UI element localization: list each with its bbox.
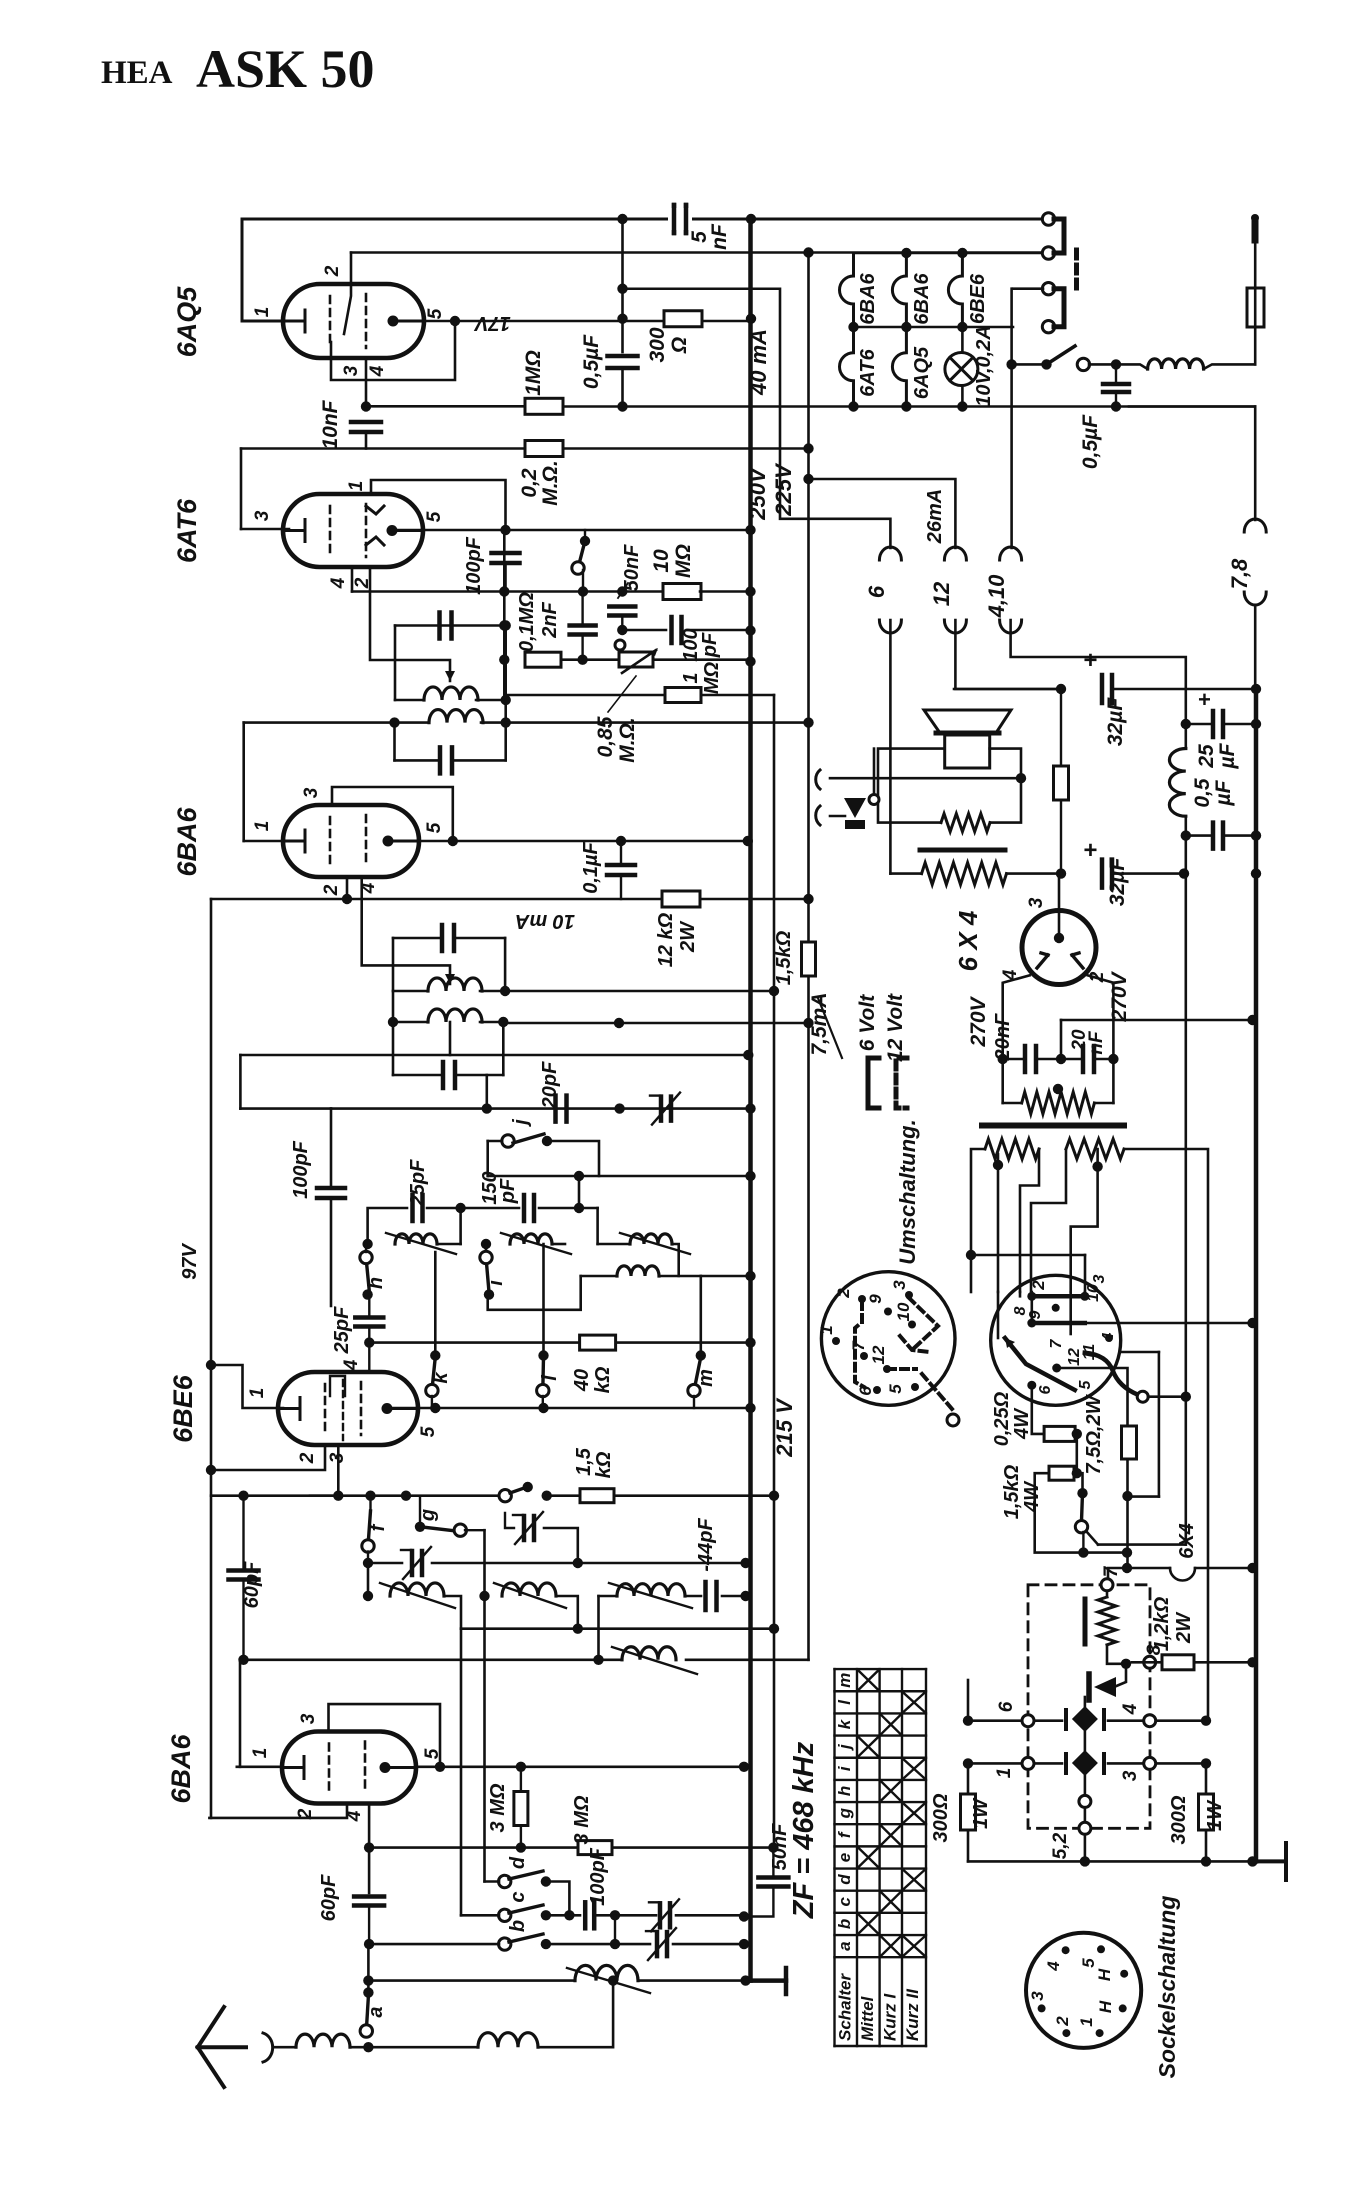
bar heater shunt (1083, 1599, 1088, 1644)
svg-text:µF: µF (1212, 779, 1235, 806)
svg-text:4W: 4W (1021, 1480, 1043, 1513)
svg-text:6BE6: 6BE6 (168, 1374, 198, 1443)
leader 7,5mA (818, 998, 842, 1058)
switch a (366, 1996, 368, 2031)
svg-text:b: b (835, 1919, 854, 1929)
wire to switch contact 2 (809, 251, 1044, 254)
coil IF2 (429, 710, 483, 723)
wire fuse to mains terminal (1254, 240, 1257, 288)
junction row2 right (1201, 1758, 1211, 1768)
heater 6BA6 b (892, 253, 906, 327)
core arrow coil2 (501, 1233, 571, 1254)
hook curve (1085, 1353, 1138, 1395)
svg-text:H: H (1095, 1968, 1114, 1981)
wire lamp bottom (961, 386, 964, 407)
svg-text:2: 2 (834, 1288, 853, 1299)
capacitor IF2 (440, 747, 452, 773)
socket pin 5 (911, 1383, 919, 1391)
wire 300R bottom (1205, 1830, 1208, 1861)
wire IF1 to IF2 (504, 700, 507, 723)
wire to 1,5k (547, 1494, 581, 1497)
socket dashes 3 (888, 1367, 916, 1371)
junction anode row bus (743, 836, 753, 846)
wire 6X4 pin3 (1058, 874, 1061, 932)
wire 6BA6 anode row (419, 840, 748, 843)
ground symbol right (1253, 1843, 1287, 1880)
wire x461 down (460, 1629, 463, 1916)
switch m (694, 1357, 701, 1391)
table X g3 (904, 1804, 924, 1822)
junction 3M1 row1848 (516, 1842, 526, 1852)
wire 44pF to bus (722, 1595, 746, 1598)
wire a up (367, 1944, 370, 1993)
svg-text:6X4: 6X4 (1176, 1523, 1198, 1559)
wire 32uF row (954, 688, 1061, 691)
junction 60pF bottom (238, 1655, 248, 1665)
none (1126, 1553, 1128, 1568)
coil osc3a (630, 1234, 672, 1244)
wire coil3b to bus (701, 1275, 751, 1278)
capacitor IF4 (443, 1062, 455, 1088)
wire pin12 to 7,5 (1057, 1368, 1128, 1426)
capacitor 50nF bottom (758, 1878, 788, 1887)
core arrow coil1 (386, 1233, 456, 1254)
lever arrow (1005, 1338, 1015, 1348)
wire trimmerB right (544, 1528, 578, 1563)
contact b (499, 1938, 511, 1950)
sockel pin 5 (1097, 1945, 1105, 1953)
svg-text:215 V: 215 V (772, 1397, 797, 1458)
svg-text:9: 9 (1027, 1310, 1044, 1319)
junction heater rail 1 (901, 248, 911, 258)
junction IF2 left (389, 717, 399, 727)
pin 3 dot 6X4 (1054, 933, 1064, 943)
svg-text:3: 3 (890, 1280, 909, 1290)
wire 2nF bottom (581, 635, 583, 660)
resistor 300Ohm 1W left (961, 1794, 976, 1830)
trimmer ant B (657, 1932, 667, 1956)
svg-text:12 kΩ: 12 kΩ (655, 912, 677, 967)
svg-text:5: 5 (1079, 1958, 1098, 1968)
svg-text:1W: 1W (970, 1797, 992, 1829)
wire IF1 right (504, 626, 507, 701)
wire 6BA6 pin3 box (332, 787, 453, 841)
wire 0,1M to pot (561, 658, 619, 661)
svg-text:0,5µF: 0,5µF (580, 334, 603, 389)
capacitor 20nF 1 (1025, 1046, 1036, 1072)
wire row 695 (504, 694, 665, 697)
wire 6BE6 anode row (393, 1407, 751, 1410)
wire 0,5uF2 bottom lead (1115, 392, 1117, 407)
junction field/32uF2 (1056, 868, 1066, 878)
junction 100pF right (610, 1910, 620, 1920)
capacitor 0,5uF 3 (1213, 823, 1223, 849)
wire to c circle (461, 1914, 499, 1917)
tube 6BE6 (278, 1372, 418, 1445)
wire 100pF down (504, 563, 507, 592)
svg-text:pF: pF (497, 1178, 519, 1204)
junction IF2/vertical 808 (803, 717, 813, 727)
capacitor 100pF osc2 (317, 1188, 345, 1198)
resistor 0,1MOhm (525, 652, 561, 667)
svg-text:0,2: 0,2 (518, 468, 541, 498)
svg-text:6BA6: 6BA6 (166, 1734, 196, 1804)
wire term6 down to field coil (889, 620, 892, 874)
wire IF3 left (392, 938, 395, 991)
svg-text:3: 3 (1091, 1274, 1108, 1283)
wire IF3 right (504, 938, 507, 991)
wire 5,2 down (1084, 1834, 1087, 1861)
capacitor 150pF (524, 1195, 534, 1221)
table X l3 (904, 1693, 924, 1711)
wire IF3 bottom left (393, 990, 428, 993)
junction row b bus (739, 1939, 749, 1949)
switch c (509, 1905, 543, 1913)
junction a/gnd row (363, 1975, 373, 1985)
junction IF3 right (500, 986, 510, 996)
wire to 6AT6 pin3 (241, 528, 289, 531)
wire rail right end (1129, 405, 1255, 408)
svg-text:10V,0,2A: 10V,0,2A (973, 325, 995, 407)
svg-text:6BE6: 6BE6 (967, 273, 989, 324)
junction hook x1185 (1181, 1392, 1191, 1402)
svg-text:0,1MΩ: 0,1MΩ (516, 592, 538, 652)
wire k bottom (431, 1396, 433, 1408)
wire 6BA6b pin1 (237, 1766, 282, 1769)
junction 20pF right (614, 1103, 624, 1113)
svg-text:32µF: 32µF (1106, 857, 1129, 906)
contact d (499, 1875, 511, 1887)
svg-text:7: 7 (849, 1340, 868, 1351)
none (997, 1291, 999, 1293)
wire h top (365, 1244, 367, 1252)
junction v/IF1 (499, 620, 509, 630)
resistor 1MOhm grid (665, 688, 701, 703)
wire trimmerB to bus (673, 1943, 744, 1946)
pickup crystal (844, 798, 866, 818)
svg-text:25pF: 25pF (331, 1306, 353, 1354)
wire coilD right lead to x808 (686, 1659, 809, 1662)
junction 1,5k right (1072, 1468, 1082, 1478)
capacitor 44pF (706, 1582, 717, 1610)
junction 20pF left (482, 1103, 492, 1113)
junction pin1/anode (500, 525, 510, 535)
wire bottom row right (1083, 1551, 1127, 1554)
wire 300R top (1205, 1763, 1208, 1794)
wire pin11 link (1086, 1531, 1098, 1545)
junction row1176 bus (745, 1171, 755, 1181)
wire choke top (1185, 724, 1188, 749)
wire left col down (367, 1563, 370, 1596)
contact pickup (869, 795, 879, 805)
terminal 4,10 (1000, 547, 1022, 560)
svg-text:17V: 17V (474, 312, 511, 334)
wire x484 long vertical (483, 1530, 486, 1881)
svg-text:270V: 270V (967, 995, 990, 1047)
none (1127, 1496, 1129, 1568)
wire antenna in (275, 2046, 296, 2049)
junction row1022 (614, 1018, 624, 1028)
socket pin 1 rect (1022, 1757, 1034, 1769)
junction coil2 left (481, 1239, 491, 1249)
svg-text:1W: 1W (1204, 1799, 1226, 1831)
svg-text:3: 3 (301, 787, 322, 798)
switch l (541, 1357, 545, 1391)
junction gnd row bus (740, 1975, 750, 1985)
none (970, 1680, 972, 1720)
speaker frame box (878, 749, 1021, 823)
wire coil3b via i (488, 1276, 581, 1310)
junction 0,25 right (1072, 1429, 1082, 1439)
wire j circle lead (488, 1140, 502, 1143)
sockel pin 3 (1038, 2004, 1046, 2012)
wire f bottom (367, 1552, 369, 1564)
wire windingA right down (1020, 1149, 1039, 1292)
coil IF3 (428, 978, 482, 991)
wire row 899 AVC (211, 898, 809, 901)
coil band B (502, 1583, 556, 1596)
leader 50nF (618, 583, 628, 598)
svg-text:M.Ω.: M.Ω. (616, 717, 639, 763)
switch 1,5k (1082, 1493, 1083, 1521)
contact g (454, 1524, 466, 1536)
junction 0,5uF3 bus (1251, 830, 1261, 840)
wire 1,5k to 215V vertical (614, 1494, 774, 1497)
wire 6AT6 anode row (392, 529, 751, 532)
wire 60pF osc bottom (242, 1580, 244, 1660)
svg-text:32µF: 32µF (1104, 697, 1127, 746)
wire coil2 to l (542, 1244, 545, 1356)
junction 0,5uF top (617, 314, 627, 324)
svg-text:7: 7 (1048, 1338, 1065, 1348)
svg-text:1,5kΩ: 1,5kΩ (1001, 1464, 1023, 1519)
junction pin3 row (333, 1491, 343, 1501)
svg-text:3: 3 (341, 365, 362, 376)
junction pin4 row1848 (364, 1842, 374, 1852)
sockel pin 1 (1096, 2029, 1104, 2037)
wire osc row left stub (240, 1107, 331, 1110)
junction windingA tap (993, 1160, 1003, 1170)
svg-text:100pF: 100pF (290, 1140, 312, 1199)
junction row660 bus (745, 656, 755, 666)
junction mains switch (1006, 359, 1016, 369)
junction osc top bus (745, 1103, 755, 1113)
svg-text:10: 10 (1085, 1284, 1102, 1302)
wire pin7 heater (1108, 1568, 1170, 1585)
wire x971 down stub (970, 1255, 973, 1292)
wire IF3 top right (456, 937, 505, 940)
junction 225V tap (803, 474, 813, 484)
wire top bus (242, 218, 1043, 221)
svg-text:12 Volt: 12 Volt (884, 993, 907, 1062)
resistor 3MOhm vertical (514, 1792, 528, 1826)
junction IF2 right (501, 717, 511, 727)
wire pin6 to 0,25 (1032, 1385, 1045, 1434)
heater 6BE6 (948, 253, 962, 327)
junction mid rail 2 (957, 322, 967, 332)
wire top bus to anode node (621, 219, 624, 319)
wire bridge row2 right (1108, 1762, 1206, 1765)
table X k2 (882, 1715, 900, 1733)
core arrow ant2 (567, 1968, 650, 1993)
wire 6X4 pin2 (1088, 975, 1114, 1059)
wire IF4 left vertical (392, 991, 395, 1075)
svg-text:300Ω: 300Ω (1168, 1795, 1190, 1844)
junction heater bus (1247, 1563, 1257, 1573)
junction 44pF bus (740, 1591, 750, 1601)
svg-text:1: 1 (680, 672, 702, 683)
ground symbol main (746, 1968, 786, 1994)
svg-text:Ω: Ω (668, 337, 691, 354)
wire 225V to term12 (809, 479, 956, 548)
socket pin 12 dot (1052, 1364, 1061, 1373)
junction sw 1,5k top (1077, 1488, 1087, 1498)
wire x240 to 6BA6b pin1 (239, 1660, 242, 1767)
wire HV left lead (1003, 1102, 1022, 1105)
junction trim1 left (363, 1558, 373, 1568)
sockel pin 4 (1062, 1946, 1070, 1954)
svg-text:100pF: 100pF (587, 1847, 609, 1906)
none (368, 2046, 478, 2048)
junction 3M1 top (516, 1762, 526, 1772)
table X c2 (882, 1893, 900, 1911)
svg-text:MΩ: MΩ (701, 661, 723, 694)
socket pin 2 (858, 1295, 866, 1303)
svg-text:k: k (835, 1718, 854, 1729)
pickup clamp bottom (816, 806, 820, 825)
svg-text:50nF: 50nF (621, 544, 643, 591)
switch mains (1016, 363, 1042, 366)
wire coilC left (599, 1595, 618, 1598)
junction pin row bus (1247, 1318, 1257, 1328)
junction v/row591 (499, 586, 509, 596)
bracket 6V (868, 1058, 879, 1108)
wire shunt top (1106, 1591, 1109, 1597)
svg-text:2: 2 (297, 1452, 318, 1464)
wire left col top (967, 1680, 970, 1721)
wire row 1255 (971, 1254, 1085, 1257)
wire 3M1 top lead (520, 1767, 522, 1792)
socket pin 9 (884, 1308, 892, 1316)
svg-text:6BA6: 6BA6 (172, 807, 202, 877)
wire 20nF row b (1036, 1058, 1083, 1061)
junction IF1 bottom right (501, 695, 511, 705)
svg-text:5: 5 (424, 822, 445, 833)
socket pin 10,3p (1080, 1292, 1089, 1301)
junction a bottom (363, 2042, 373, 2052)
svg-text:5: 5 (1077, 1379, 1094, 1389)
svg-text:0,5µF: 0,5µF (1079, 414, 1102, 469)
wire coilB right down (556, 1596, 578, 1629)
capacitor 0,5uF (608, 356, 638, 368)
wire IF2 box left (393, 723, 396, 761)
svg-text:HEA: HEA (101, 55, 173, 91)
socket pin 4 rect (1144, 1715, 1156, 1727)
junction j right (542, 1136, 552, 1146)
resistor 0,25Ohm 4W (1044, 1426, 1075, 1441)
svg-text:5: 5 (418, 1426, 439, 1437)
switch d (509, 1871, 543, 1879)
wire coilA right down (446, 1596, 461, 1629)
junction 0,2M / vertical (803, 443, 813, 453)
wire 6AT6 pin2 to IF1 core (370, 567, 450, 681)
junction B+ bus 300ohm (746, 314, 756, 324)
switch h (366, 1257, 369, 1291)
wire x211 to pin2 (209, 1804, 347, 1818)
tube 6X4 (1022, 911, 1096, 985)
wire to pin8 (1031, 1292, 1034, 1318)
tube 6AQ5 (283, 284, 424, 358)
wire row 1659 (240, 1659, 599, 1662)
svg-text:Kurz II: Kurz II (903, 1988, 922, 2041)
svg-text:1,5kΩ: 1,5kΩ (773, 930, 795, 985)
contact hook (1137, 1391, 1148, 1402)
field coil zigzag (922, 863, 1007, 885)
svg-text:6BA6: 6BA6 (857, 273, 879, 325)
junction 32uF2/choke (1179, 868, 1189, 878)
wire to 1,5k switch (1081, 1473, 1084, 1493)
junction 32uF1 left (1056, 684, 1066, 694)
junction 2nF bottom (577, 655, 587, 665)
extra grid 6BE6 (330, 1376, 345, 1440)
contact 5,2 b (1079, 1822, 1091, 1834)
junction row1 right (1201, 1716, 1211, 1726)
table X h2 (882, 1782, 900, 1800)
junction row1176/150pF (574, 1171, 584, 1181)
svg-text:Umschaltung.: Umschaltung. (895, 1119, 920, 1264)
svg-text:3: 3 (1026, 897, 1047, 908)
wire a to coil3 (368, 2046, 478, 2049)
svg-text:3: 3 (298, 1713, 319, 1724)
switch j (513, 1134, 544, 1143)
junction m top (696, 1350, 706, 1360)
table X b1 (859, 1915, 878, 1933)
svg-text:250V: 250V (745, 466, 770, 521)
wire IF4 to osc row (485, 1075, 488, 1109)
wire row 1176 (488, 1175, 751, 1178)
contact 1,5k switch (1075, 1521, 1087, 1533)
resistor bleed (1054, 766, 1069, 800)
junction row899 vertical808 (803, 894, 813, 904)
wire row 1848 left (369, 1846, 577, 1849)
wire 50nF down (621, 616, 623, 630)
none (330, 1107, 332, 1109)
wire pin8 row (1032, 1321, 1085, 1326)
mech link dashed (1074, 250, 1079, 292)
capacitor 10nF (351, 422, 381, 432)
wire 10nF to 6AT6 node (365, 432, 368, 449)
wire x240 down to osc (239, 1055, 242, 1109)
transformer winding A (985, 1139, 1039, 1159)
wire 100pF osc bottom (330, 1198, 333, 1306)
svg-text:6: 6 (1037, 1385, 1054, 1394)
lever power 1 (1005, 1338, 1075, 1390)
switch k (432, 1357, 435, 1391)
speaker cone (924, 710, 1011, 733)
junction bottom rail 3 (957, 401, 967, 411)
wire row1563 right (432, 1562, 746, 1565)
wire 1M to 215V vertical (701, 694, 774, 697)
core arrow coil3 (620, 1233, 690, 1254)
wire gnd row b (1085, 1860, 1253, 1863)
coil osc2 (510, 1234, 552, 1244)
heater 6AT6 (840, 327, 854, 407)
junction l row (538, 1403, 548, 1413)
svg-text:2W: 2W (677, 920, 699, 953)
trimmer osc A (412, 1551, 422, 1575)
contact series switch (499, 1490, 511, 1502)
hop over (1170, 1568, 1195, 1580)
